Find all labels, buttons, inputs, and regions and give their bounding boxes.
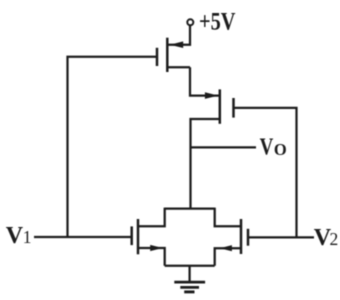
wire M1 drain to M2 drain xyxy=(190,67,220,95)
wire M2 source down to pair drains bus xyxy=(191,119,220,209)
wire M2 gate to V2 node xyxy=(234,108,297,238)
wire bottom bus of pair xyxy=(165,265,215,267)
wire M4 gate to V2 label xyxy=(248,236,314,238)
transistor M2 xyxy=(205,89,234,123)
wire Vo tap xyxy=(191,146,257,148)
svg-text:V: V xyxy=(260,134,274,161)
wire M1 gate to V1 node xyxy=(68,57,158,237)
+5V terminal xyxy=(187,19,193,25)
transistor M3 xyxy=(132,219,163,254)
transistor M4 xyxy=(220,219,248,254)
wire ground stem xyxy=(188,266,190,282)
wire bus to M3 drain xyxy=(138,208,165,227)
wire V1 lead xyxy=(34,236,132,238)
svg-text:O: O xyxy=(274,140,287,159)
wire top bus of pair xyxy=(165,207,215,209)
transistor M1 xyxy=(157,38,190,72)
svg-text:+5V: +5V xyxy=(199,9,236,36)
wire +5V terminal to M1 source xyxy=(167,25,190,44)
wire M4 source to bottom bus xyxy=(215,248,241,266)
wire bus to M4 drain xyxy=(215,208,241,227)
ground xyxy=(174,282,205,292)
svg-text:V1: V1 xyxy=(6,223,32,249)
wire M3 source to bottom bus xyxy=(138,248,165,266)
svg-text:V2: V2 xyxy=(314,225,338,251)
